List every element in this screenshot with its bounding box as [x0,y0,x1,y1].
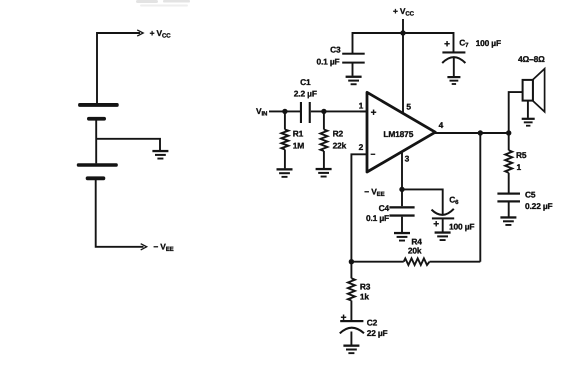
svg-text:5: 5 [406,102,411,112]
svg-text:4: 4 [439,120,444,130]
svg-text:R3: R3 [360,281,371,291]
svg-text:R5: R5 [516,150,527,160]
svg-text:C5: C5 [525,190,536,200]
svg-text:+ VCC: + VCC [393,6,415,18]
svg-text:0.1 µF: 0.1 µF [316,57,339,67]
svg-text:4Ω–8Ω: 4Ω–8Ω [518,54,545,64]
svg-text:+: + [341,313,347,324]
svg-text:20k: 20k [408,246,422,256]
svg-text:+ VCC: + VCC [150,28,172,40]
svg-text:22 µF: 22 µF [367,328,388,338]
svg-text:3: 3 [405,154,410,164]
svg-text:1M: 1M [293,141,305,151]
svg-text:C3: C3 [330,45,341,55]
svg-text:0.1 µF: 0.1 µF [366,213,389,223]
svg-text:C2: C2 [367,317,378,327]
svg-text:R2: R2 [333,129,344,139]
svg-text:+: + [433,219,439,230]
svg-text:− VEE: − VEE [153,242,173,254]
svg-text:LM1875: LM1875 [383,129,413,139]
svg-text:2: 2 [359,142,364,152]
svg-text:C6: C6 [449,195,459,207]
svg-text:100 µF: 100 µF [449,222,474,232]
svg-text:2.2 µF: 2.2 µF [294,89,317,99]
svg-text:1k: 1k [360,291,370,301]
svg-text:C4: C4 [379,203,390,213]
svg-text:C7: C7 [459,37,469,49]
svg-text:R1: R1 [293,129,304,139]
svg-text:+: + [444,39,450,50]
svg-text:− VEE: − VEE [364,186,384,198]
svg-text:VIN: VIN [256,106,267,118]
svg-text:22k: 22k [333,141,347,151]
svg-text:1: 1 [359,101,364,111]
svg-text:−: − [371,149,376,159]
svg-text:+: + [371,108,377,119]
svg-text:1: 1 [517,162,522,172]
svg-text:0.22 µF: 0.22 µF [525,201,553,211]
svg-text:100 µF: 100 µF [476,38,501,48]
svg-text:C1: C1 [300,77,311,87]
